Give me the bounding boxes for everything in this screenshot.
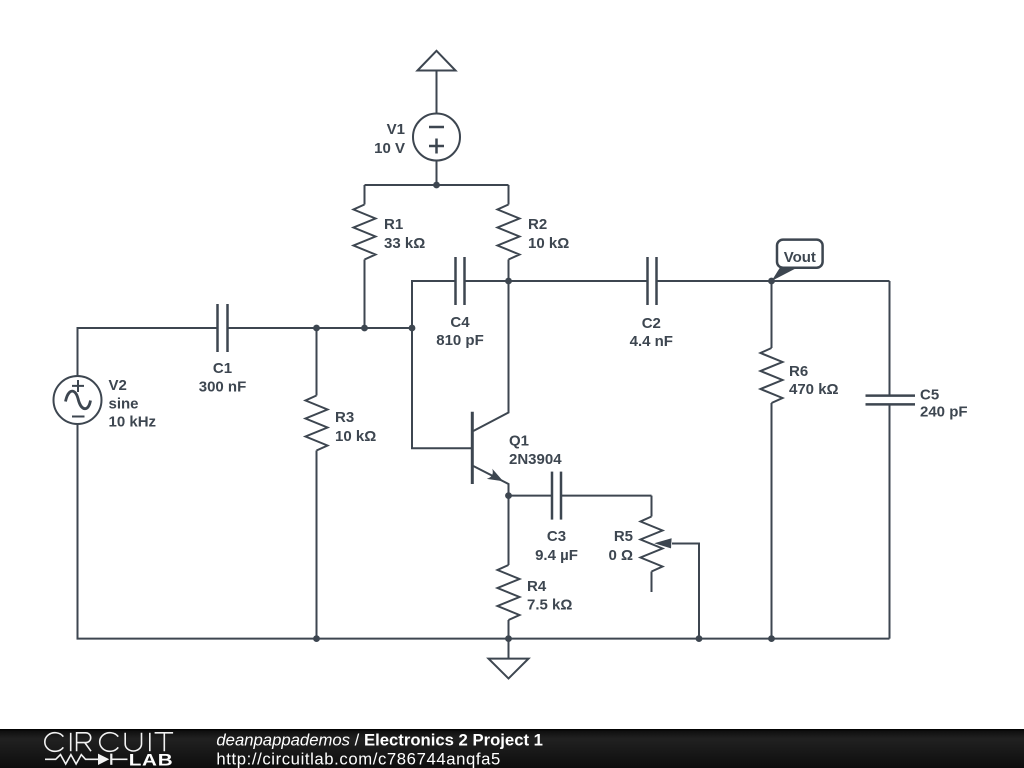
svg-text:R5: R5 (614, 528, 633, 545)
svg-text:C3: C3 (547, 528, 566, 545)
svg-text:deanpappademos / Electronics 2: deanpappademos / Electronics 2 Project 1 (216, 730, 543, 749)
svg-text:Q1: Q1 (509, 433, 529, 450)
svg-text:10 kΩ: 10 kΩ (528, 235, 569, 252)
svg-text:R4: R4 (527, 578, 547, 595)
svg-text:R6: R6 (789, 363, 808, 380)
svg-text:470 kΩ: 470 kΩ (789, 381, 839, 398)
svg-text:V1: V1 (387, 121, 405, 138)
svg-text:Vout: Vout (784, 249, 816, 266)
svg-text:R2: R2 (528, 216, 547, 233)
svg-text:7.5 kΩ: 7.5 kΩ (527, 597, 572, 614)
svg-text:0 Ω: 0 Ω (608, 547, 633, 564)
svg-text:10 V: 10 V (374, 140, 405, 157)
svg-text:C4: C4 (450, 314, 470, 331)
svg-text:2N3904: 2N3904 (509, 451, 562, 468)
svg-text:R1: R1 (384, 216, 403, 233)
svg-text:240 pF: 240 pF (920, 404, 968, 421)
svg-text:33 kΩ: 33 kΩ (384, 235, 425, 252)
svg-text:9.4 µF: 9.4 µF (535, 547, 578, 564)
svg-text:C2: C2 (642, 315, 661, 332)
svg-text:810 pF: 810 pF (436, 332, 484, 349)
svg-text:C1: C1 (213, 360, 232, 377)
svg-text:LAB: LAB (129, 750, 174, 768)
svg-text:10 kHz: 10 kHz (109, 414, 157, 431)
svg-text:sine: sine (109, 396, 139, 413)
svg-text:V2: V2 (109, 377, 127, 394)
svg-text:300 nF: 300 nF (199, 379, 247, 396)
svg-text:http://circuitlab.com/c786744a: http://circuitlab.com/c786744anqfa5 (216, 749, 500, 768)
svg-text:4.4 nF: 4.4 nF (630, 333, 673, 350)
svg-text:10 kΩ: 10 kΩ (335, 428, 376, 445)
svg-text:C5: C5 (920, 387, 939, 404)
svg-text:R3: R3 (335, 409, 354, 426)
